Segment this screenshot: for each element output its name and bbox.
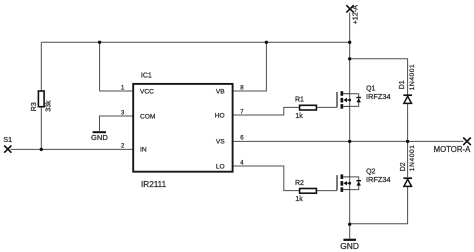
svg-text:IRFZ34: IRFZ34 [366,175,391,184]
wire LO to R2 [233,166,299,191]
svg-text:IN: IN [140,147,147,154]
svg-text:33k: 33k [46,100,53,112]
node junction VS/D column [406,140,409,143]
terminal S1 [3,136,12,153]
svg-text:MOTOR-A: MOTOR-A [434,145,471,154]
wire +12 column through Q1 [349,12,351,141]
wire HO to R1 [233,107,299,115]
node junction D1 branch [348,57,351,60]
wire D2 anode to ground net [350,187,408,224]
resistor R1 [295,97,316,120]
svg-text:VB: VB [216,88,225,95]
wire D1 anode to VS [407,104,409,142]
wire Q2 column to ground [349,141,351,239]
svg-text:VCC: VCC [140,88,154,95]
wire branch to D1 cathode [350,59,408,95]
wire COM to ground [100,116,133,131]
svg-text:LO: LO [216,163,225,170]
wire R3 top lead [40,42,42,91]
svg-text:COM: COM [140,113,155,120]
svg-text:R2: R2 [295,180,304,187]
svg-text:1N4001: 1N4001 [409,64,416,91]
svg-text:HO: HO [215,112,225,119]
wire VCC riser from rail to pin 1 [100,42,133,91]
svg-text:1k: 1k [295,113,303,120]
svg-text:+12-A: +12-A [351,5,360,25]
node junction GND net [348,223,351,226]
transistor Q2 IRFZ34 [337,169,391,192]
svg-text:D2: D2 [400,162,407,171]
wire VB riser to rail [233,42,266,91]
node junction R3/S1 net [40,148,43,151]
svg-text:IC1: IC1 [141,72,152,79]
wire R3 bottom lead to S1 net [40,107,42,150]
ground bottom gnd symbol [340,240,359,251]
svg-text:IRFZ34: IRFZ34 [366,92,391,101]
transistor Q1 IRFZ34 [337,86,391,109]
svg-text:IR2111: IR2111 [141,180,167,189]
wire R2 to Q2 gate [317,190,337,192]
node junction VS/Q column [348,140,351,143]
node junction rail/VB [265,41,268,44]
svg-text:S1: S1 [3,136,12,144]
resistor R2 [295,180,316,203]
svg-text:1N4001: 1N4001 [409,144,416,171]
wire S1 to pin IN [11,148,133,150]
ground COM gnd symbol [91,132,108,142]
svg-text:GND: GND [340,241,359,251]
svg-text:R1: R1 [295,97,304,104]
diode D2 1N4001 [400,144,416,186]
wire VS output line to MOTOR-A [233,140,463,142]
resistor R3 [31,91,53,112]
svg-text:VS: VS [216,139,225,146]
svg-text:D1: D1 [399,80,406,89]
op-amp IC1 IR2111 box [133,72,232,189]
node junction rail/+12 column [348,41,351,44]
wire R1 to Q1 gate [317,106,337,108]
svg-text:R3: R3 [31,102,38,111]
svg-text:1k: 1k [295,196,303,203]
wire top +12 rail [41,41,349,43]
node junction rail/VCC [98,41,101,44]
terminal MOTOR-A [434,138,471,155]
diode D1 1N4001 [399,64,416,104]
svg-text:GND: GND [91,133,108,142]
power +12-A terminal [346,5,359,25]
wire VS to D2 cathode [407,141,409,177]
